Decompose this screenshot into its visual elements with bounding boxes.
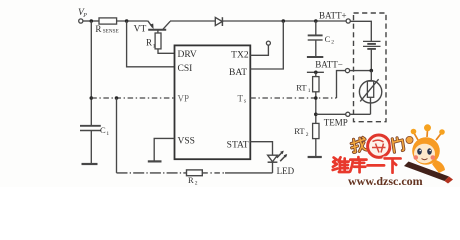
- capacitor C1: [80, 126, 101, 164]
- svg-text:C: C: [100, 125, 106, 135]
- watermark text weikuyixia: [333, 157, 401, 173]
- battery GB: [363, 41, 381, 70]
- node on VP line at C1 column: [90, 96, 94, 100]
- wire bottom rail left (dash-dot): [117, 172, 187, 174]
- label RT2: [294, 126, 309, 138]
- node C2 junction: [314, 19, 318, 23]
- svg-text:RT: RT: [294, 126, 305, 136]
- svg-text:2: 2: [195, 181, 198, 187]
- wire rail column down: [116, 98, 118, 173]
- pin label DRV: [178, 50, 197, 60]
- pin label TX2: [231, 51, 249, 61]
- wire STAT to LED: [250, 142, 272, 155]
- label LED: [277, 166, 295, 176]
- wire node B to CSI pin: [127, 21, 175, 67]
- node on VP line at rail column: [115, 96, 119, 100]
- svg-text:2: 2: [306, 132, 309, 138]
- wire RSENSE to VT emitter: [117, 20, 148, 22]
- label TEMP: [324, 117, 348, 127]
- label V_P: [78, 8, 87, 19]
- ground bar under C1: [82, 163, 98, 165]
- terminal BATT-: [345, 69, 349, 73]
- svg-text:P: P: [82, 13, 87, 19]
- label VT: [134, 24, 147, 34]
- diode VD: [215, 17, 222, 26]
- node B junction: [125, 19, 129, 23]
- svg-text:T: T: [238, 93, 244, 103]
- svg-text:CSI: CSI: [178, 64, 193, 74]
- svg-text:VSS: VSS: [178, 136, 195, 146]
- wire junction to sensor: [370, 71, 372, 82]
- svg-text:SENSE: SENSE: [103, 29, 119, 35]
- LED: [268, 151, 288, 173]
- terminal TEMP: [346, 112, 350, 116]
- label BATT+: [319, 10, 347, 20]
- node BAT riser junction: [282, 19, 286, 23]
- node RT1 bottom on Ts line: [314, 96, 318, 100]
- wire BAT pin to top rail: [250, 21, 283, 69]
- ground VSS: [148, 160, 162, 162]
- label RSENSE: [95, 24, 118, 35]
- svg-text:VT: VT: [134, 24, 147, 34]
- svg-text:BATT−: BATT−: [315, 60, 343, 70]
- pin label BAT: [229, 68, 247, 78]
- resistor R2: [187, 170, 203, 176]
- svg-text:2: 2: [331, 40, 334, 46]
- svg-text:1: 1: [308, 88, 311, 94]
- svg-text:STAT: STAT: [227, 140, 249, 150]
- wire BATT- terminal into pack: [350, 70, 372, 72]
- pin label VSS: [178, 136, 195, 146]
- terminal TX2: [266, 41, 270, 45]
- terminal BATT+: [346, 19, 350, 23]
- wire node A down to C1: [90, 21, 92, 125]
- svg-text:BAT: BAT: [229, 68, 247, 78]
- temperature sensor in pack: [359, 79, 381, 114]
- wire RT1 to RT2: [315, 92, 317, 124]
- wire bottom rail mid (dash-dot): [202, 172, 226, 174]
- wire RT2 down: [315, 139, 317, 157]
- svg-text:LED: LED: [277, 166, 295, 176]
- svg-text:TX2: TX2: [231, 51, 249, 61]
- watermark dzsc: [333, 124, 453, 188]
- label R2: [188, 175, 198, 187]
- wire VT base to R1: [157, 30, 159, 33]
- label C1: [100, 125, 109, 137]
- label C2: [325, 34, 335, 46]
- resistor R1: [155, 33, 161, 49]
- watermark red ball with xin: [368, 135, 390, 157]
- svg-text:www.dzsc.com: www.dzsc.com: [348, 174, 423, 187]
- bar under C2: [307, 56, 323, 58]
- wire TEMP junction to terminal: [316, 113, 346, 115]
- wire diode to BATT+: [222, 20, 346, 22]
- node above RT1: [314, 71, 318, 75]
- pin label CSI: [178, 64, 193, 74]
- svg-text:R: R: [95, 24, 101, 34]
- svg-text:DRV: DRV: [178, 50, 197, 60]
- node A junction: [90, 19, 94, 23]
- wire bar to RT1: [315, 72, 317, 76]
- wire BATT- terminal to Ts line: [337, 71, 346, 98]
- resistor RSENSE: [99, 18, 117, 24]
- battery pack dashed box: [354, 13, 387, 122]
- svg-text:C: C: [325, 34, 331, 44]
- wire VT collector to diode: [170, 20, 215, 22]
- capacitor C2: [308, 21, 323, 56]
- label R1: [146, 38, 156, 50]
- svg-text:TEMP: TEMP: [324, 117, 348, 127]
- watermark char pian: [392, 137, 404, 152]
- node TEMP junction: [314, 113, 318, 117]
- transistor VT: [148, 21, 170, 30]
- pin label STAT: [227, 140, 249, 150]
- thermistor RT1: [313, 77, 319, 92]
- watermark mascot: [404, 124, 453, 183]
- op-amp U1 charge controller IC box: [175, 45, 251, 159]
- pin label VP: [178, 94, 190, 104]
- wire VSS to ground: [154, 138, 174, 160]
- wire BATT+ into pack: [350, 21, 371, 41]
- wire bottom rail right to LED: [225, 172, 273, 174]
- node battery minus junction: [370, 69, 374, 73]
- bar under RT2: [308, 156, 322, 158]
- wire Ts dash-dot to RT1/BATT-: [250, 97, 336, 99]
- watermark char zhao: [350, 137, 366, 153]
- svg-text:1: 1: [153, 43, 156, 49]
- wire dash-dot VP line: [91, 97, 174, 99]
- svg-text:BATT+: BATT+: [319, 10, 347, 20]
- svg-text:s: s: [244, 98, 247, 105]
- label RT1: [296, 83, 311, 95]
- pin label Ts: [238, 93, 247, 104]
- wire TX2 to test terminal: [250, 45, 268, 55]
- label BATT-: [315, 60, 343, 70]
- svg-text:R: R: [188, 175, 194, 185]
- thermistor RT2: [313, 123, 319, 138]
- wire R1 to DRV pin: [158, 49, 175, 53]
- bar above RT1: [307, 71, 324, 73]
- terminal V_P: [79, 19, 83, 23]
- svg-text:VP: VP: [178, 94, 190, 104]
- wire sensor to TEMP terminal: [350, 113, 371, 115]
- svg-text:1: 1: [106, 131, 109, 137]
- svg-text:R: R: [146, 38, 152, 48]
- wire VP terminal to RSENSE: [83, 20, 99, 22]
- svg-text:RT: RT: [296, 83, 307, 93]
